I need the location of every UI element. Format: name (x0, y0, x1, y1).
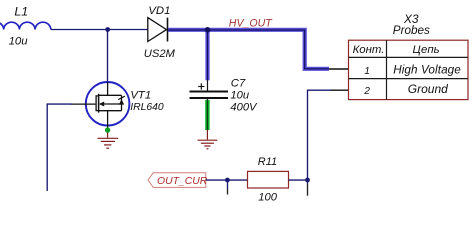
svg-text:Конт.: Конт. (353, 44, 385, 56)
svg-text:Ground: Ground (408, 82, 448, 96)
wire stub below left junction (227, 180, 229, 189)
wire R11 to ground net junction (289, 179, 308, 181)
drain pin (107, 82, 109, 95)
body arrow head (points left) (99, 102, 104, 107)
wire HV_OUT net dark core (168, 30, 329, 80)
svg-text:1: 1 (364, 66, 370, 77)
svg-text:Цепь: Цепь (413, 44, 440, 56)
svg-text:VD1: VD1 (148, 5, 170, 17)
X3 pin 1 lead (329, 68, 349, 70)
wire OUT_CUR to R11 (206, 179, 248, 181)
source tap (99, 110, 122, 112)
svg-text:IRL640: IRL640 (130, 102, 164, 113)
svg-text:2: 2 (363, 86, 370, 97)
wire junction to VT1 drain (107, 30, 109, 83)
body diode arrow on rail (119, 99, 124, 104)
svg-text:R11: R11 (258, 156, 277, 168)
wire green highlighted segment C7 to ground (205, 100, 209, 130)
svg-text:L1: L1 (14, 4, 28, 18)
svg-text:10u: 10u (9, 36, 29, 48)
source pin (107, 111, 109, 129)
connector X3 table (349, 40, 469, 99)
green pad dot (VT1 source) (105, 127, 110, 132)
table inner row line 1 (349, 56, 469, 58)
wire HV_OUT thick highlighted net (168, 30, 329, 81)
wire L1 to VD1 anode (51, 29, 148, 31)
ground (C7) (198, 130, 218, 149)
gate bar (96, 96, 98, 111)
wire stub below right junction (307, 180, 309, 184)
junction dot HV net at C7 branch (205, 27, 211, 33)
transistor VT1 mosfet symbol (71, 82, 122, 129)
svg-text:VT1: VT1 (130, 89, 151, 101)
svg-text:HV_OUT: HV_OUT (229, 17, 273, 29)
channel bar (98, 94, 100, 113)
svg-text:OUT_CUR: OUT_CUR (157, 176, 208, 187)
svg-text:Probes: Probes (393, 24, 430, 37)
net label OUT_CUR flag (148, 173, 206, 188)
svg-text:400V: 400V (230, 102, 258, 114)
junction dot right of R11 (305, 178, 310, 183)
table inner row line 2 (349, 78, 469, 80)
ground (VT1 source) (97, 133, 118, 149)
junction dot node drain/L1 (105, 27, 110, 32)
body arrow shaft (104, 103, 122, 105)
body diode cathode tick (118, 96, 125, 99)
resistor R11 (248, 171, 289, 188)
svg-text:100: 100 (258, 192, 277, 204)
wire right junction up to X3 pin 2 (308, 90, 332, 180)
pin stub below left junction (black) (227, 189, 229, 195)
pin stub below right junction (black) (307, 184, 309, 196)
wire VT1 gate to lower-left (47, 104, 71, 191)
body rail (121, 95, 123, 110)
diode VD1 (148, 18, 168, 42)
capacitor C7 (190, 80, 229, 101)
polarity plus sign C7 (198, 86, 204, 88)
table column divider (386, 40, 388, 99)
gate lead inside circle (71, 103, 96, 105)
svg-text:10u: 10u (230, 90, 249, 102)
svg-text:C7: C7 (231, 78, 246, 90)
transistor VT1 circle (86, 82, 130, 126)
svg-text:US2M: US2M (144, 48, 176, 60)
inductor L1 (0, 22, 51, 29)
svg-text:High Voltage: High Voltage (393, 63, 461, 76)
junction dot left of R11 (225, 178, 230, 183)
drain tap (99, 94, 122, 96)
X3 pin 2 lead (331, 89, 349, 91)
wire green segment dark core (206, 99, 208, 130)
